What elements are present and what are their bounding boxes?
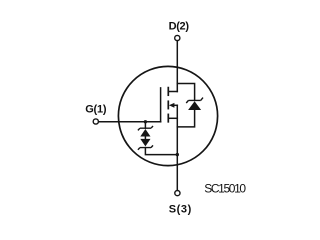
wire drain vertical xyxy=(176,41,178,91)
wire body stub xyxy=(173,104,178,106)
transistor envelope circle xyxy=(118,66,217,165)
wire source vertical xyxy=(176,105,178,190)
node source-zener junction xyxy=(176,153,179,156)
body source arrow xyxy=(169,103,175,108)
wire source stub xyxy=(168,117,177,119)
protection zener Z2 xyxy=(138,139,153,150)
wire protection zener return xyxy=(145,148,177,155)
svg-text:S(3): S(3) xyxy=(169,203,192,215)
channel segment body xyxy=(167,101,169,108)
svg-text:G(1): G(1) xyxy=(85,104,107,116)
wire protection zener drop xyxy=(144,122,146,128)
wire drain branch to body diode xyxy=(177,84,194,101)
body zener diode D1 xyxy=(186,98,203,110)
node gate-zener junction xyxy=(144,120,147,123)
wire protection zener link xyxy=(144,137,146,139)
svg-text:SC15010: SC15010 xyxy=(204,182,246,196)
wire drain stub xyxy=(168,91,177,93)
terminal S xyxy=(175,191,180,196)
wire body diode return xyxy=(177,110,194,127)
gate electrode bar xyxy=(160,88,162,122)
terminal D xyxy=(175,35,180,40)
channel segment source xyxy=(167,114,169,121)
protection zener Z1 xyxy=(138,126,153,137)
channel segment drain xyxy=(167,88,169,96)
terminal G xyxy=(93,119,98,124)
wire gate horizontal xyxy=(99,121,161,123)
svg-text:D(2): D(2) xyxy=(169,20,190,32)
